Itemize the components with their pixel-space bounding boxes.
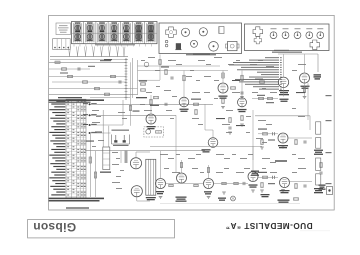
- heater bus wire: [50, 56, 128, 58]
- component c10: [129, 106, 131, 111]
- power labels: [218, 198, 226, 199]
- label r1: [100, 60, 111, 61]
- chassis layout box: [159, 23, 242, 54]
- pilot lamp: [231, 196, 236, 201]
- tube V9 labels: [278, 145, 288, 146]
- label mv: [133, 111, 140, 112]
- resistor R16: [154, 96, 159, 98]
- output jack labels: [319, 185, 326, 186]
- wire to footswitch: [100, 125, 123, 127]
- resistor R30: [183, 75, 185, 81]
- resistor R4: [111, 75, 116, 77]
- label v147: [125, 151, 128, 164]
- wire down x176: [175, 115, 177, 172]
- label m8: [236, 125, 245, 126]
- ground G1: [221, 106, 225, 108]
- power tube V15: [130, 158, 141, 169]
- tube V12: [177, 173, 187, 183]
- wire v4 plate: [304, 54, 306, 73]
- resistor R25: [207, 168, 209, 173]
- capacitor C2: [118, 80, 120, 83]
- wire bus f: [49, 93, 138, 95]
- input jacks J1-J4: [53, 39, 70, 50]
- tube V7 labels: [147, 126, 156, 127]
- ground G4: [240, 123, 244, 125]
- resistor R13: [231, 87, 236, 89]
- tube V7: [146, 114, 156, 124]
- tube V13 labels: [204, 191, 212, 192]
- label m1: [136, 97, 147, 98]
- wire vert c: [89, 133, 91, 197]
- stage parts right: [295, 140, 297, 145]
- strip caption: [95, 44, 135, 45]
- wire v7 grid: [150, 95, 152, 114]
- wire vert f: [108, 126, 110, 147]
- terminal strip ladder: [125, 58, 127, 100]
- ground G2: [240, 96, 244, 98]
- capacitor C1: [77, 67, 79, 70]
- fuse: [294, 198, 299, 200]
- tube V5 labels: [180, 109, 189, 110]
- tube pin wires: [73, 44, 75, 47]
- wire up v13: [208, 165, 210, 179]
- wire bus d: [52, 81, 126, 83]
- bottom wires: [160, 203, 300, 205]
- label v3 under: [280, 99, 289, 100]
- wire v4 down: [304, 83, 306, 96]
- wire vert b: [137, 60, 139, 95]
- stage1 labels: [258, 129, 267, 130]
- wire vert d: [95, 151, 97, 197]
- table header: [49, 99, 105, 101]
- wire from T4: [91, 132, 111, 134]
- tube V3 labels: [279, 90, 289, 91]
- ground G8: [251, 189, 255, 191]
- cap bank lower label: [314, 188, 323, 189]
- note box: [56, 23, 71, 35]
- capacitor C6: [240, 91, 243, 93]
- wire plate bottom: [136, 197, 138, 201]
- scan artifact: [300, 230, 330, 233]
- svg-text:Gibson: Gibson: [33, 220, 76, 234]
- power tube V16: [131, 186, 142, 197]
- node T1: [89, 103, 91, 105]
- tube V8 labels: [202, 149, 211, 150]
- wire v3 down: [283, 88, 285, 97]
- tube V2A: [218, 83, 228, 93]
- wire bus e: [49, 88, 138, 90]
- ground G10: [303, 96, 307, 98]
- tube V6 labels: [238, 109, 247, 110]
- wire v3 plate: [283, 54, 285, 77]
- cap bank upper: [316, 122, 321, 134]
- wire mid long2: [150, 145, 262, 147]
- wire down x253: [252, 110, 254, 171]
- wire bus b: [49, 68, 90, 70]
- tube chart strip V1-V7: [72, 22, 158, 44]
- capacitor C8: [242, 182, 244, 185]
- footswitch jacks: [111, 135, 113, 145]
- wire up from y125: [122, 100, 124, 125]
- node T4: [89, 132, 91, 134]
- label top mid: [193, 53, 210, 54]
- wire mid long: [85, 150, 205, 152]
- tube V5: [179, 97, 189, 107]
- capacitor C7: [228, 126, 231, 128]
- resistor R24: [180, 163, 182, 168]
- chassis caption: [186, 54, 216, 55]
- tube V14 labels: [249, 184, 258, 185]
- wire down x160: [159, 55, 161, 81]
- resistor R34: [303, 88, 305, 93]
- resistor R5: [83, 81, 88, 83]
- resistor R2: [62, 68, 67, 70]
- resistor R33: [150, 99, 152, 105]
- label m4: [232, 80, 240, 81]
- label m2: [150, 105, 159, 106]
- ground G6: [207, 196, 211, 198]
- wire plate top: [135, 152, 137, 158]
- wire y98 right: [252, 98, 278, 100]
- wire up v14: [252, 146, 254, 160]
- wire bus g: [90, 97, 130, 99]
- wire tremolo: [255, 115, 310, 117]
- wire y80: [138, 79, 161, 81]
- output transformer T1: [146, 159, 156, 195]
- label r3536: [257, 95, 265, 96]
- label bl: [86, 141, 94, 142]
- wire v6 plate: [241, 71, 243, 98]
- squiggle parts: [141, 83, 146, 85]
- resistor R18: [241, 116, 243, 121]
- tube V14: [248, 172, 258, 182]
- control panel caption: [272, 52, 302, 53]
- wire down x160b: [160, 151, 162, 178]
- wire from T3: [91, 124, 123, 126]
- tube V4 labels: [301, 86, 310, 87]
- tube V6: [238, 98, 247, 107]
- label m5: [255, 79, 263, 80]
- capacitor C5: [164, 103, 166, 106]
- schematic note: [66, 207, 89, 208]
- reverb unit box: [144, 127, 164, 137]
- wire b+ rail2: [138, 70, 229, 72]
- speaker jack: [327, 187, 333, 195]
- heater twisted pairs: [69, 47, 70, 57]
- tube V3: [278, 77, 288, 87]
- cap bank upper label: [314, 150, 323, 151]
- wire vert g: [120, 151, 122, 163]
- wire speaker feed: [278, 53, 318, 55]
- wire from T2: [91, 114, 176, 116]
- footswitch caption: [112, 130, 130, 131]
- label can: [100, 172, 111, 173]
- wire vert e: [102, 110, 104, 147]
- resistor R36: [268, 97, 273, 99]
- label m3: [191, 99, 201, 100]
- tube V11 labels: [156, 191, 164, 192]
- label sq: [139, 81, 147, 82]
- table caption: [49, 198, 105, 200]
- resistor R22: [222, 182, 226, 184]
- label m6: [296, 92, 305, 93]
- resistor R23: [234, 182, 238, 184]
- wire down x213: [212, 130, 214, 138]
- resistor R20: [169, 184, 173, 186]
- stage2 parts: [263, 176, 268, 178]
- tube V12 labels: [176, 197, 187, 198]
- wire right x288b: [288, 180, 312, 182]
- resistor R6: [95, 87, 100, 89]
- wire from T1: [91, 103, 213, 105]
- resistor R7: [105, 93, 110, 95]
- resistor R17: [229, 118, 231, 123]
- wire bus c: [49, 76, 126, 78]
- wire bus a: [49, 61, 126, 63]
- tube V2A labels: [219, 96, 228, 97]
- resistor R26: [89, 157, 91, 163]
- wire stub labels: [83, 103, 88, 104]
- ground G3: [228, 131, 232, 133]
- wire up v12: [181, 160, 183, 173]
- transformer label: [146, 197, 156, 198]
- wire b+ rail: [138, 65, 221, 67]
- resistor R35: [259, 97, 264, 99]
- stage1 parts: [263, 133, 268, 135]
- label cluster: [104, 59, 112, 60]
- wire mid v: [130, 62, 132, 126]
- label block speaker field: [314, 74, 322, 75]
- resistor R27: [94, 172, 96, 178]
- tube V4: [300, 73, 310, 83]
- wire v2a plate: [222, 71, 224, 84]
- node T2: [89, 114, 91, 116]
- wire v5 plate: [183, 71, 185, 98]
- tube V10: [280, 178, 290, 188]
- resistor R15: [195, 110, 197, 115]
- node T3: [89, 124, 91, 126]
- resistor R31: [222, 73, 224, 78]
- tube V8: [208, 138, 218, 148]
- right col parts: [320, 163, 322, 168]
- wire vert a: [131, 58, 133, 98]
- resistor R3: [68, 75, 73, 77]
- wire x308: [307, 83, 309, 120]
- component value labels: [141, 60, 145, 61]
- tube V9: [278, 133, 288, 143]
- gibson logo box: [28, 220, 175, 238]
- control panel box: [245, 24, 330, 51]
- resistor R32: [241, 75, 243, 81]
- label stage2 big: [251, 171, 259, 172]
- speaker label: [274, 50, 289, 51]
- tube V11: [156, 179, 166, 189]
- right margin specks: [326, 95, 332, 96]
- resistor R11: [194, 103, 199, 105]
- wire right x288: [288, 137, 312, 139]
- voltage chart table: [56, 101, 65, 102]
- resistor R1: [55, 61, 60, 63]
- ground G7: [222, 191, 226, 193]
- resistor R21: [194, 184, 198, 186]
- notes list: [265, 56, 279, 59]
- label outjack top: [275, 160, 287, 161]
- resistor R12: [222, 99, 224, 104]
- wire bottom row: [166, 183, 204, 185]
- tube V13: [204, 179, 214, 189]
- resistor R10: [159, 60, 161, 65]
- label m7: [216, 118, 225, 119]
- resistor R14: [260, 81, 265, 83]
- ground G5: [159, 196, 163, 198]
- tube V10 labels: [280, 190, 290, 191]
- can capacitor C9: [103, 147, 110, 170]
- stage2 labels: [258, 172, 267, 173]
- svg-text:DUO-MEDALIST “A”: DUO-MEDALIST “A”: [225, 221, 312, 230]
- wire down x205: [204, 104, 206, 130]
- cap bank lower: [316, 158, 321, 170]
